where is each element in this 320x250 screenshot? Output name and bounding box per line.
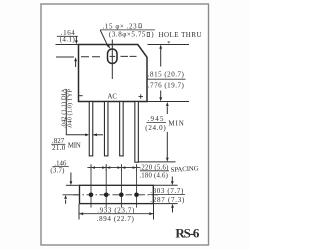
svg-text:.945: .945 (148, 115, 165, 123)
svg-text:MIN: MIN (68, 141, 81, 149)
svg-text:21.0: 21.0 (52, 144, 66, 152)
svg-text:.303 (7.7): .303 (7.7) (150, 187, 184, 195)
svg-text:(4.1): (4.1) (60, 36, 76, 44)
svg-text:MIN: MIN (168, 119, 183, 127)
svg-text:.15 φ× .23: .15 φ× .23 (103, 22, 138, 30)
svg-text:.180 (4.6): .180 (4.6) (139, 173, 168, 180)
svg-text:.776 (19.7): .776 (19.7) (148, 81, 185, 89)
svg-text:HOLE THRU: HOLE THRU (159, 31, 202, 39)
svg-text:RS-6: RS-6 (175, 225, 200, 240)
svg-text:(3.7): (3.7) (50, 168, 64, 175)
svg-text:.894 (22.7): .894 (22.7) (97, 215, 135, 223)
svg-text:AC: AC (107, 93, 117, 101)
svg-text:*: * (167, 40, 170, 47)
svg-text:(24.0): (24.0) (145, 124, 166, 132)
svg-text:.815 (20.7): .815 (20.7) (148, 71, 185, 79)
svg-text:.933 (23.7): .933 (23.7) (97, 206, 135, 214)
svg-text:.287 (7.3): .287 (7.3) (150, 196, 185, 204)
svg-text:.146: .146 (54, 160, 67, 167)
svg-text:.220 (5.6): .220 (5.6) (139, 165, 168, 172)
svg-text:(3.8φ×5.75: (3.8φ×5.75 (109, 31, 146, 39)
svg-text:.040 (1.0) TYP: .040 (1.0) TYP (66, 89, 73, 129)
